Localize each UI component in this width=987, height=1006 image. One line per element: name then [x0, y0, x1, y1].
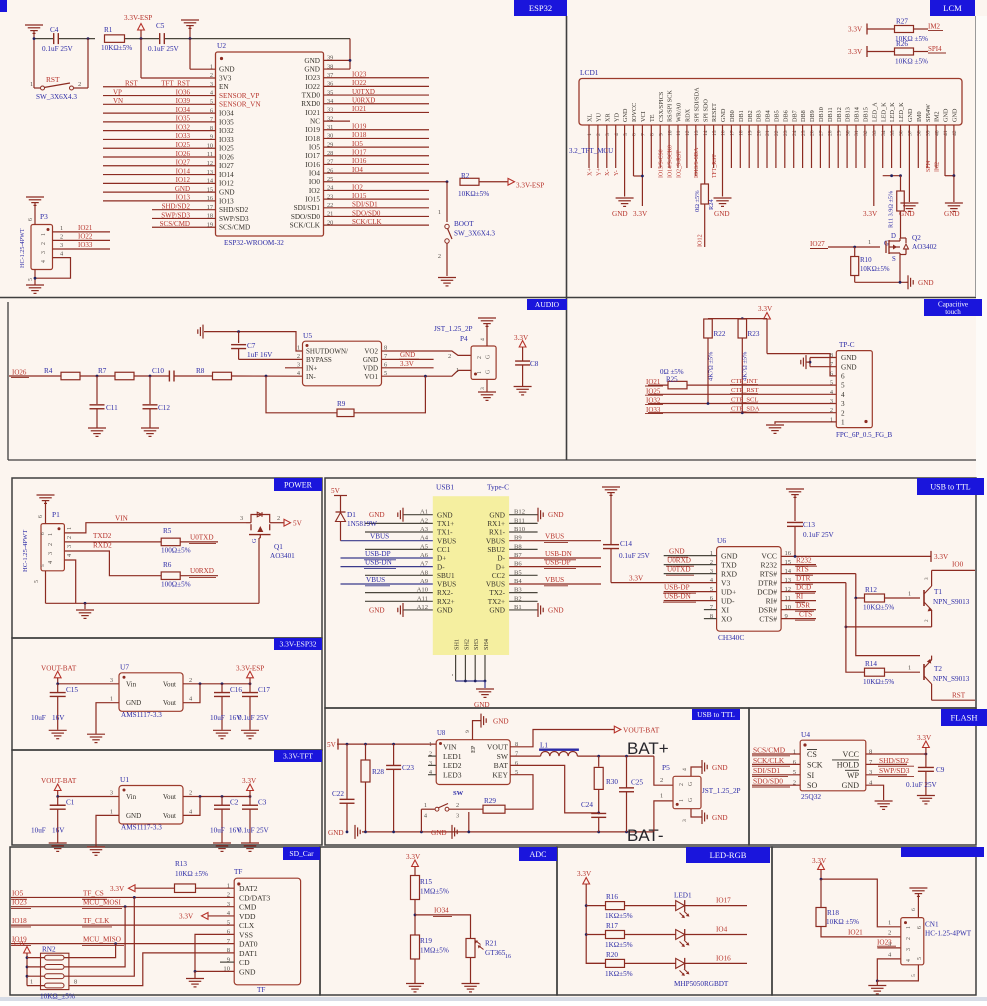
svg-text:TFT_RST: TFT_RST [712, 154, 718, 178]
svg-text:R20: R20 [606, 951, 618, 959]
wire P3 pin2 IO22 [53, 232, 111, 240]
svg-text:24: 24 [792, 130, 798, 136]
svg-text:3: 3 [480, 387, 486, 390]
svg-text:CTS: CTS [799, 611, 812, 619]
resistor R11 vertical 3.9ohm [888, 176, 905, 228]
svg-text:29: 29 [836, 130, 842, 136]
mosfet Q2 AO3402 [884, 211, 937, 282]
LCD1 pin 13 wire [695, 125, 697, 176]
svg-text:GND: GND [841, 354, 857, 362]
capacitor C4 [42, 26, 74, 53]
U2 pin 13 name IO14 [207, 169, 234, 179]
LCD1 pin 33 wire [873, 125, 875, 206]
svg-text:IO19: IO19 [352, 123, 367, 131]
section border: USB / USB-to-TTL upper box [325, 478, 976, 708]
wire A7 USB-DN [341, 559, 433, 569]
svg-text:IO12: IO12 [176, 176, 191, 184]
svg-text:33: 33 [872, 130, 878, 136]
resistor R30 vertical [594, 756, 618, 813]
svg-text:2: 2 [60, 233, 63, 240]
svg-text:R23: R23 [748, 330, 760, 338]
svg-text:3: 3 [830, 398, 833, 405]
resistor R9 feedback [266, 376, 425, 417]
svg-text:2: 2 [438, 253, 441, 260]
U2 pin 24 name IO2 [309, 185, 334, 195]
power flag 3.3V-ESP [236, 664, 264, 684]
svg-text:IO39: IO39 [176, 97, 191, 105]
power flag 3.3V at RN2 [12, 940, 30, 986]
LCD1 pin 2 name YU [596, 113, 603, 136]
svg-text:SDO/SD0: SDO/SD0 [753, 777, 783, 786]
svg-text:USB-DN: USB-DN [664, 593, 692, 601]
wire P3 pin1 IO21 [53, 224, 111, 232]
U2 pin 18 name SWP/SD3 [207, 213, 249, 223]
label JST_1.25_2P at P5 [702, 787, 741, 795]
TF pin 6 name VSS [227, 929, 253, 940]
svg-text:IO33: IO33 [219, 136, 234, 144]
labels USB1 Type-C [436, 483, 509, 492]
wire TF pin7 MCU_MISO [11, 936, 234, 946]
svg-text:3.3V-ESP: 3.3V-ESP [516, 182, 544, 190]
svg-text:5V: 5V [293, 520, 303, 528]
svg-text:R19: R19 [420, 937, 432, 945]
svg-text:VBUS: VBUS [370, 533, 389, 541]
wire LED to IO16 [685, 954, 747, 963]
USB1 shield pins SH1-SH4 [454, 639, 490, 650]
LCD1 pin 38 wire [917, 125, 919, 168]
TF pin 8 name DAT1 [227, 947, 258, 958]
wire U6 pin13 DTR [781, 575, 846, 585]
USB1 pin A3 name TX1- [420, 526, 453, 537]
svg-text:IO18: IO18 [305, 135, 320, 143]
ground (top, right of C5) [181, 20, 199, 40]
svg-text:1: 1 [210, 63, 213, 70]
wire CN1 pin3 IO23 [877, 939, 901, 948]
svg-text:IO17: IO17 [716, 897, 731, 905]
svg-text:6: 6 [841, 373, 845, 381]
svg-text:3: 3 [41, 251, 47, 254]
svg-text:RTS#: RTS# [760, 570, 777, 579]
resistor network RN2 box [40, 946, 75, 1001]
svg-text:IO27: IO27 [219, 162, 234, 170]
ground under CN1 [868, 981, 886, 994]
resistor R29 [483, 797, 505, 813]
USB1 pin B7 name D- [497, 552, 522, 563]
U5 left pin names [297, 345, 348, 381]
svg-text:Vout: Vout [163, 812, 176, 820]
svg-text:DCD#: DCD# [757, 588, 777, 597]
svg-text:3.3V: 3.3V [400, 360, 414, 368]
wire U4 pin3 SWP/SD3 [866, 766, 914, 776]
svg-text:U0RXD: U0RXD [190, 567, 214, 575]
wire TF pin6 VSS [195, 934, 234, 971]
U6 pin 5 name UD+ [710, 586, 737, 597]
power flag 3.3V [242, 777, 257, 797]
ground under C1 [49, 843, 67, 851]
svg-text:GND: GND [493, 717, 509, 725]
svg-text:5: 5 [911, 974, 917, 977]
LCD1 pin 10 name RS/SPI SCK [667, 90, 674, 136]
svg-text:36: 36 [899, 130, 905, 136]
wire B6 USB-DP [509, 559, 601, 569]
svg-text:6: 6 [28, 218, 34, 221]
wire B4 VBUS [509, 576, 601, 586]
svg-text:TXD0: TXD0 [302, 91, 321, 99]
svg-text:GND: GND [126, 699, 141, 707]
RN2 left common wires [27, 958, 45, 986]
svg-text:IO35: IO35 [176, 115, 191, 123]
LCD1 pin 42 name GND [952, 108, 959, 136]
capacitor C2 [210, 797, 242, 843]
wire LED to IO17 [685, 897, 747, 906]
label CTP_INT [730, 378, 758, 385]
svg-text:GND: GND [712, 814, 728, 822]
svg-text:2: 2 [448, 353, 451, 360]
wire TP-C pin1 to ground [775, 422, 836, 424]
svg-text:USB-DP: USB-DP [365, 550, 391, 558]
LCD1 pin 34 wire [882, 125, 884, 168]
section border: LED-RGB box [557, 847, 772, 995]
P5 pin3 to GND port [682, 809, 728, 824]
svg-text:Q2: Q2 [912, 234, 921, 242]
wire U2 pin 19 net SCS/CMD [152, 220, 216, 228]
wire P3 pin4 to ground loop [34, 251, 71, 280]
svg-text:IOVCC: IOVCC [631, 103, 638, 122]
U2 pin 6 name IO34 [210, 107, 234, 117]
U2 pin 21 name SDO/SD0 [291, 211, 333, 221]
wire R21 to ground [470, 958, 472, 984]
LCD1 pin 35 wire [891, 125, 893, 168]
svg-text:C17: C17 [258, 686, 270, 694]
svg-text:P1: P1 [52, 510, 60, 519]
TP-C pin 3 name 3 [830, 398, 845, 408]
svg-text:1: 1 [30, 81, 33, 88]
LCD1 pin 29 name DB12 [836, 107, 843, 136]
wire P1 pin2 TXD2 [64, 532, 161, 542]
svg-text:DB13: DB13 [845, 107, 852, 122]
svg-text:R9: R9 [337, 400, 346, 408]
ground under LCD pin37 [899, 168, 918, 218]
U2 pin 8 name IO32 [210, 125, 234, 135]
title 3.3V-ESP32 [274, 638, 322, 650]
title POWER [274, 478, 322, 491]
U2 pin 29 name IO5 [309, 141, 333, 151]
svg-text:TXD2: TXD2 [93, 532, 112, 540]
wire U2 pin 26 net IO4 [324, 166, 430, 174]
svg-text:GND: GND [669, 548, 685, 556]
LCD1 pin 39 wire [926, 125, 928, 168]
ground (top-left of ESP32) [25, 25, 43, 39]
capacitor C24 [581, 801, 606, 832]
svg-text:SH4: SH4 [483, 639, 490, 650]
U2 pin 9 name IO33 [210, 134, 234, 144]
svg-text:3.3V-TFT: 3.3V-TFT [283, 752, 313, 761]
svg-text:R14: R14 [865, 660, 877, 668]
svg-text:IO15/S-CS0: IO15/S-CS0 [659, 149, 665, 178]
wire U6 pin6 USB-DN [663, 593, 717, 603]
LCD1 pin 4 wire [615, 125, 617, 168]
net IO27 wire to Q2 gate [810, 239, 880, 249]
wire R7 to C10 [134, 375, 169, 378]
label CTP_SCL [730, 396, 758, 403]
LCD1 pin 31 name DB14 [854, 107, 861, 136]
resistor R24 vertical [694, 168, 715, 247]
resistor R20 [605, 951, 633, 978]
LCD1 pin 21 wire [766, 125, 768, 168]
svg-text:0.1uF 25V: 0.1uF 25V [238, 714, 270, 722]
U2 pin 33 name IO21 [305, 107, 333, 117]
wire U2 pin 23 net IO15 [324, 192, 430, 200]
svg-text:DSR#: DSR# [758, 606, 777, 615]
svg-text:CMD: CMD [239, 903, 257, 912]
svg-text:GND: GND [489, 607, 505, 615]
wire TF pin5 TF_CLK [11, 917, 234, 927]
svg-text:4: 4 [47, 561, 54, 564]
TF pin 7 name DAT0 [227, 938, 258, 949]
wire U2 pin 16 net IO13 [103, 194, 216, 202]
resistor R6 [161, 561, 191, 589]
LCD1 pin 15 name RESET [711, 103, 718, 136]
svg-text:4: 4 [841, 391, 845, 399]
flash U4 box [800, 730, 866, 801]
svg-text:DAT2: DAT2 [239, 884, 258, 893]
wire U8 BAT pin to R30/C24 [510, 765, 600, 814]
wire U2 pin 35 net U0TXD [324, 88, 430, 96]
svg-text:IO26: IO26 [12, 369, 27, 377]
U2 pin 19 name SCS/CMD [207, 221, 250, 231]
svg-text:RST: RST [952, 692, 966, 700]
svg-text:VSS: VSS [239, 930, 253, 939]
U2 pin 15 name GND [207, 186, 235, 196]
svg-text:USB to TTL: USB to TTL [697, 710, 735, 719]
LCD1 pin 21 name DB4 [765, 110, 772, 136]
svg-text:CTP_RST: CTP_RST [731, 387, 758, 394]
svg-text:VDD: VDD [363, 364, 378, 372]
svg-text:C8: C8 [530, 360, 539, 368]
wire U1 GND pin to ground [96, 815, 119, 846]
svg-text:2: 2 [924, 619, 930, 622]
regulator U1 AMS1117-3.3 box [110, 775, 193, 832]
ground under U1 GND [87, 847, 105, 855]
LED diode R20 [676, 958, 690, 976]
svg-text:EP: EP [470, 745, 477, 753]
LCD1 pin 23 wire [784, 125, 786, 168]
svg-text:C11: C11 [106, 404, 118, 412]
svg-text:FPC_6P_0.5_FG_B: FPC_6P_0.5_FG_B [836, 431, 893, 439]
svg-text:2: 2 [477, 356, 483, 359]
svg-text:DB8: DB8 [800, 110, 807, 122]
transistor T2 NPN_S9013 [924, 656, 970, 701]
label CTP_SDA [730, 406, 760, 413]
svg-text:LED_A: LED_A [871, 102, 878, 122]
svg-text:DB7: DB7 [791, 110, 798, 122]
wire VOUT-BAT to U7 Vin [56, 682, 119, 685]
svg-text:RESET: RESET [711, 103, 718, 122]
svg-text:C24: C24 [581, 801, 593, 809]
svg-text:GND: GND [474, 701, 490, 709]
svg-text:USB-DN: USB-DN [545, 550, 573, 558]
wire LED to IO4 [685, 926, 747, 935]
svg-text:CTP_SCL: CTP_SCL [731, 396, 758, 403]
svg-text:GT365: GT365 [485, 949, 506, 957]
svg-text:C16: C16 [230, 686, 242, 694]
svg-text:SCS/CMD: SCS/CMD [160, 220, 190, 228]
svg-text:D+: D+ [496, 563, 505, 571]
svg-text:C4: C4 [50, 26, 59, 34]
LCD1 pin 25 wire [802, 125, 804, 168]
wire U2 pin 11 net IO26 [103, 150, 216, 158]
wire U8 VOUT to VOUT-BAT flag [510, 730, 614, 747]
power flag 3.3V-ESP at R2 [508, 178, 544, 189]
svg-text:VP: VP [113, 88, 122, 96]
wire RST/GND top rail [34, 38, 350, 40]
section border: SD_Car box [10, 847, 320, 995]
ground under C17 [241, 730, 259, 738]
label BAT- [627, 826, 664, 845]
resistor R4 [44, 367, 80, 380]
CH340C U6 box [717, 536, 782, 642]
svg-text:IM0: IM0 [916, 111, 923, 122]
connector P4 box [434, 325, 496, 379]
svg-text:SPI SDI/SDA: SPI SDI/SDA [693, 87, 700, 122]
svg-text:LED_K: LED_K [898, 102, 905, 122]
wire 5V rail to U8 VIN [337, 743, 436, 746]
svg-text:IO22: IO22 [78, 232, 93, 240]
svg-text:XR: XR [604, 113, 611, 122]
svg-text:T1: T1 [934, 588, 942, 596]
svg-text:IO0: IO0 [309, 178, 321, 186]
wires shield pins to tie [450, 655, 487, 682]
svg-text:3.3V: 3.3V [12, 940, 27, 948]
LCD1 pin 3 name XR [604, 113, 611, 136]
wire P3 pin3 IO33 [53, 241, 111, 249]
LCD1 pin 5 name GND [622, 108, 629, 136]
svg-text:ADC: ADC [530, 850, 547, 859]
resistor R27 with 3.3V [848, 18, 943, 44]
svg-text:SCS/CMD: SCS/CMD [753, 745, 786, 754]
P1 pin5 to ground rail [34, 571, 46, 604]
U6 pin 10 name DSR# [758, 604, 791, 615]
wire P1 pin4 to ground rail [64, 554, 75, 603]
svg-text:2: 2 [41, 242, 47, 245]
GND port mid battery rail [431, 825, 457, 839]
U2 pin 28 name IO17 [305, 150, 333, 160]
svg-text:1: 1 [908, 591, 911, 598]
svg-text:RST: RST [46, 75, 60, 84]
ground above P3 [26, 197, 44, 225]
U5 pin3 IN+ stub [285, 367, 303, 369]
svg-text:23: 23 [783, 130, 789, 136]
svg-text:IO23: IO23 [305, 74, 320, 82]
svg-text:16V: 16V [52, 827, 65, 835]
svg-text:2: 2 [297, 353, 300, 360]
svg-text:IO23: IO23 [352, 71, 367, 79]
svg-text:LCM: LCM [943, 3, 962, 13]
rotated net label IO13 under pin13 [694, 147, 700, 178]
svg-text:D+: D+ [437, 555, 446, 563]
svg-text:GND: GND [304, 65, 320, 73]
svg-text:0.1uF 25V: 0.1uF 25V [42, 45, 74, 53]
svg-text:3.3V: 3.3V [934, 553, 949, 561]
svg-text:16: 16 [505, 954, 511, 960]
svg-text:IO2: IO2 [352, 183, 363, 191]
USB1 pin B8 name SBU2 [487, 543, 522, 554]
regulator U7 AMS1117-3.3 box [110, 662, 193, 719]
capacitor C9 [906, 754, 945, 795]
svg-text:DCD: DCD [796, 584, 811, 592]
svg-text:0.1uF 25V: 0.1uF 25V [148, 45, 180, 53]
wire U2 pin 18 net SWP/SD3 [152, 211, 216, 219]
svg-text:XI: XI [721, 606, 729, 615]
svg-text:Q1: Q1 [274, 543, 283, 551]
svg-text:VDD: VDD [239, 912, 256, 921]
svg-text:6: 6 [632, 133, 638, 136]
svg-text:4: 4 [480, 338, 486, 341]
wire U2 pin 5 net IO39 [103, 97, 216, 105]
title LCM [930, 0, 975, 16]
wire A3 stub [365, 531, 433, 533]
section border: horizontal divider below AUDIO/touch [8, 459, 976, 461]
svg-text:2: 2 [456, 802, 459, 809]
svg-text:3: 3 [240, 515, 243, 522]
LCD1 pin 27 name DB10 [818, 107, 825, 136]
svg-text:10: 10 [667, 130, 673, 136]
svg-text:3: 3 [110, 790, 113, 797]
svg-text:IO4: IO4 [309, 170, 321, 178]
LCD1 pin 36 name LED_K [898, 102, 905, 136]
svg-text:25: 25 [801, 130, 807, 136]
svg-text:TE: TE [649, 114, 656, 122]
svg-text:35: 35 [890, 130, 896, 136]
svg-text:SPI4: SPI4 [926, 161, 932, 172]
wire P1 pin1 VIN to Q1 [64, 515, 246, 533]
label LED1 [674, 892, 692, 900]
svg-text:SENSOR_VP: SENSOR_VP [219, 92, 259, 100]
svg-text:GND: GND [328, 829, 344, 837]
U2 pin 25 name IO0 [309, 176, 333, 186]
svg-text:10uF: 10uF [210, 714, 225, 722]
LCD1 pin 24 wire [793, 125, 795, 168]
svg-text:41: 41 [943, 130, 949, 136]
svg-text:RX2-: RX2- [437, 589, 454, 597]
wire U2 pin 32 NC stub [324, 120, 351, 122]
svg-text:DB15: DB15 [863, 107, 870, 122]
svg-text:DB11: DB11 [827, 107, 834, 122]
wire R14 to T2 base [885, 665, 921, 673]
svg-text:SDI/SD1: SDI/SD1 [753, 766, 780, 775]
svg-text:G: G [251, 538, 258, 543]
svg-text:RX1+: RX1+ [487, 520, 505, 528]
svg-text:IO14/S-SCK0: IO14/S-SCK0 [668, 145, 674, 178]
LED rail vertical [585, 884, 606, 963]
svg-text:RXD2: RXD2 [93, 542, 112, 550]
svg-text:GND: GND [918, 279, 934, 287]
svg-text:3.3V: 3.3V [812, 857, 827, 865]
wire A1 GND to port [369, 508, 433, 522]
svg-text:4: 4 [906, 959, 912, 962]
wire B3 stub [509, 592, 537, 594]
wire 3.3V to CN1 pin1 [820, 878, 901, 927]
ground above P1 [37, 495, 55, 524]
LCD1 pin 22 wire [775, 125, 777, 168]
svg-text:U2: U2 [217, 41, 226, 50]
title USB to TTL (upper) [917, 478, 984, 495]
svg-text:SW: SW [497, 752, 509, 761]
wire U6 pin15 R232 [781, 557, 817, 567]
wire rail to R20 [586, 962, 605, 964]
USB1 pin B4 name VBUS [486, 578, 523, 589]
capacitor C23 [386, 744, 414, 832]
